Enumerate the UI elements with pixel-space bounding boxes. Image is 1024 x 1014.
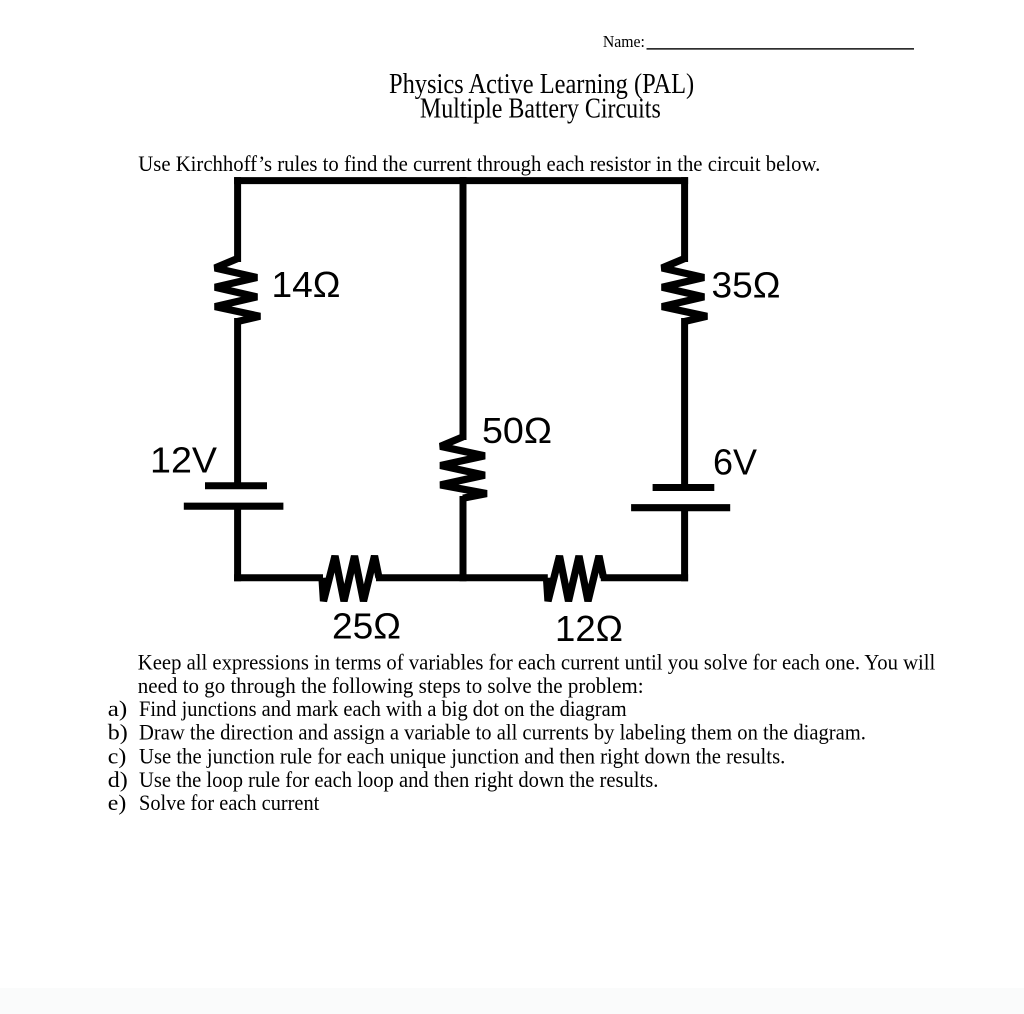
svg-text:12V: 12V xyxy=(150,439,218,480)
svg-text:Keep all expressions in terms: Keep all expressions in terms of variabl… xyxy=(138,650,936,675)
svg-text:35Ω: 35Ω xyxy=(712,264,781,305)
wire: left branch between R1 and battery B1 xyxy=(234,318,241,485)
svg-text:14Ω: 14Ω xyxy=(272,264,341,305)
wire: right branch top segment xyxy=(681,177,688,262)
resistor R1 14ohm xyxy=(215,259,260,322)
svg-text:Use the loop rule for each loo: Use the loop rule for each loop and then… xyxy=(139,767,658,792)
svg-text:Use the junction rule for each: Use the junction rule for each unique ju… xyxy=(139,743,785,768)
battery B2 6V negative plate xyxy=(631,504,730,511)
resistor R4 25ohm xyxy=(322,556,379,601)
resistor R2 35ohm xyxy=(662,259,707,322)
svg-text:b): b) xyxy=(108,719,128,744)
svg-text:Solve for each current: Solve for each current xyxy=(139,790,319,815)
battery B2 6V positive plate xyxy=(653,484,715,491)
wire: top horizontal from node TL to node TR xyxy=(234,177,688,184)
name underline xyxy=(647,48,915,50)
wire: left branch top segment xyxy=(234,177,241,262)
svg-text:Use Kirchhoff’s rules to find: Use Kirchhoff’s rules to find the curren… xyxy=(138,151,820,176)
svg-text:6V: 6V xyxy=(713,442,758,483)
resistor R3 50ohm xyxy=(440,437,486,498)
svg-text:Name:: Name: xyxy=(603,32,645,51)
wire: middle branch top segment xyxy=(460,177,467,440)
svg-text:e): e) xyxy=(108,790,127,815)
wire: bottom left segment xyxy=(234,574,323,581)
wire: middle branch bottom segment xyxy=(460,496,467,581)
svg-text:Multiple Battery Circuits: Multiple Battery Circuits xyxy=(420,93,661,124)
resistor R5 12ohm xyxy=(547,556,604,601)
wire: right branch bottom segment xyxy=(681,508,688,582)
svg-text:a): a) xyxy=(108,696,128,721)
svg-text:25Ω: 25Ω xyxy=(332,606,401,647)
wire: left branch bottom segment xyxy=(234,506,241,581)
svg-text:d): d) xyxy=(108,767,128,792)
svg-text:Find junctions and mark each w: Find junctions and mark each with a big … xyxy=(139,696,627,721)
battery B1 12V positive plate xyxy=(205,482,267,489)
svg-text:c): c) xyxy=(108,743,127,768)
battery B1 12V negative plate xyxy=(184,503,284,510)
svg-text:Draw the direction and assign: Draw the direction and assign a variable… xyxy=(139,719,866,744)
wire: bottom middle segment xyxy=(376,574,548,581)
svg-text:50Ω: 50Ω xyxy=(482,410,552,451)
svg-text:need to go through the followi: need to go through the following steps t… xyxy=(138,673,644,698)
wire: right branch between R2 and battery B2 xyxy=(681,318,688,487)
wire: bottom right segment xyxy=(601,574,688,581)
svg-text:12Ω: 12Ω xyxy=(555,608,623,649)
